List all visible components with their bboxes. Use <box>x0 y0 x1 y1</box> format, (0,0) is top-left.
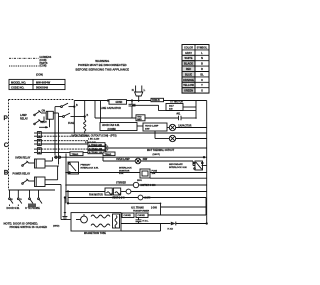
svg-text:FUSE: FUSE <box>68 122 75 125</box>
wire rows <box>41 135 88 137</box>
ground <box>62 212 67 220</box>
relay K2 coil box <box>35 159 46 168</box>
bus row 203 <box>68 202 161 204</box>
fl box <box>113 214 120 228</box>
svg-text:CHOKE: CHOKE <box>138 215 146 217</box>
svg-text:PROBE SWITCH IS CLOSED: PROBE SWITCH IS CLOSED <box>10 225 48 229</box>
junction hv drop <box>160 203 162 205</box>
magnetron filament top <box>91 215 110 218</box>
svg-text:SECONDARY: SECONDARY <box>169 163 183 166</box>
svg-text:MW-8654W: MW-8654W <box>36 80 51 84</box>
motor M3 <box>138 195 143 200</box>
fan motor label <box>89 194 103 197</box>
magnetron filament bottom <box>91 224 110 227</box>
svg-text:PRIMARY: PRIMARY <box>81 164 92 167</box>
wire control board right <box>105 143 106 145</box>
top supply wire <box>74 100 206 102</box>
svg-text:RELAY: RELAY <box>20 118 28 121</box>
power plug <box>135 86 143 103</box>
hv trans label <box>131 207 158 210</box>
svg-text:H.V.C.: H.V.C. <box>143 220 149 222</box>
main dashed border left <box>8 100 10 191</box>
wire vertical x100.5 <box>100 101 102 123</box>
node P <box>4 115 9 122</box>
bus n wire <box>95 117 179 119</box>
oven thermal cutout label <box>71 134 117 137</box>
motor M2 <box>126 189 131 194</box>
bus row 157 <box>54 156 207 158</box>
svg-text:HOOD FAN S.W.: HOOD FAN S.W. <box>102 124 120 127</box>
svg-text:MAGNETRON TUBE: MAGNETRON TUBE <box>84 232 106 235</box>
svg-text:MGT THERMAL CUTOUT: MGT THERMAL CUTOUT <box>147 149 175 152</box>
wire vertical bus x84.7 <box>84 101 86 121</box>
connector pins group 2 <box>37 139 41 145</box>
svg-text:OVEN THERMAL CUTOUT (CON) - (P: OVEN THERMAL CUTOUT (CON) - (PTS) <box>71 134 117 137</box>
capacitor C3 hv <box>136 218 142 224</box>
tt motor box <box>166 104 183 111</box>
magnetron antenna <box>81 216 88 223</box>
svg-text:BRN-B: BRN-B <box>152 100 160 102</box>
wire left drop <box>60 190 62 220</box>
node C <box>4 142 9 149</box>
legend parts line <box>9 65 39 67</box>
relay K2 contact <box>22 161 29 167</box>
relay K1 lamp relay label <box>20 114 28 121</box>
svg-text:DOOR S.W.: DOOR S.W. <box>7 207 20 210</box>
svg-text:(CON): (CON) <box>36 74 43 77</box>
svg-text:B: B <box>4 169 9 176</box>
legend text <box>36 56 52 76</box>
fuse F1 <box>84 120 86 131</box>
motor M1 <box>133 182 138 187</box>
b labels <box>76 105 89 117</box>
hood lamp L2 <box>169 135 175 141</box>
relay K2 oven relay label <box>15 156 31 159</box>
on label <box>41 110 48 124</box>
svg-text:GRND: GRND <box>116 102 123 104</box>
relay K1 coil box <box>46 111 53 119</box>
svg-text:C: C <box>4 142 9 149</box>
relay K3 coil box <box>35 177 46 187</box>
svg-text:BLACK: BLACK <box>184 63 193 66</box>
svg-text:TRANSFORMER: TRANSFORMER <box>133 210 150 213</box>
svg-text:CHOKE: CHOKE <box>124 215 132 217</box>
main dashed border top <box>9 99 75 101</box>
svg-text:2-360: 2-360 <box>151 208 158 210</box>
choke box 2 <box>136 213 148 218</box>
primary interlock <box>65 154 67 204</box>
control board box 1 <box>88 143 105 146</box>
capacitor label <box>178 124 192 127</box>
bus mgt row <box>106 147 207 149</box>
stirrer motor row <box>116 183 126 185</box>
probe block <box>28 204 36 208</box>
relay K3 power relay label <box>13 172 31 175</box>
junction cap row <box>195 117 197 119</box>
magnetron box <box>71 213 121 231</box>
node B <box>4 169 9 176</box>
svg-text:H.V. TRANS: H.V. TRANS <box>131 207 144 210</box>
svg-text:N: N <box>201 57 203 60</box>
svg-text:B: B <box>76 105 78 107</box>
wires tt motor <box>132 101 196 119</box>
svg-text:(CONN): (CONN) <box>108 129 117 131</box>
hv diode row <box>121 223 171 225</box>
svg-text:B: B <box>87 115 89 117</box>
svg-text:STIRRER: STIRRER <box>116 183 126 185</box>
svg-text:HOOD LAMP: HOOD LAMP <box>145 124 159 127</box>
svg-text:MODEL NO.: MODEL NO. <box>11 80 26 84</box>
switch S2 row <box>59 113 86 117</box>
svg-text:POWER RELAY: POWER RELAY <box>13 172 31 175</box>
junction fan row <box>65 191 67 193</box>
hood fan switch box <box>100 123 137 131</box>
wire stub under relay <box>39 126 48 128</box>
choke box 1 <box>122 213 134 218</box>
probe switch S6 <box>38 190 42 204</box>
svg-text:LINE CAPACITOR: LINE CAPACITOR <box>101 107 121 110</box>
svg-text:T: T <box>107 150 109 152</box>
svg-text:TRIAD: TRIAD <box>105 153 112 156</box>
control board box 3 <box>88 150 105 153</box>
color symbol table <box>182 45 209 94</box>
right border <box>206 101 208 224</box>
svg-text:#01: #01 <box>177 114 182 116</box>
svg-text:B TRIAD 120: B TRIAD 120 <box>89 151 103 154</box>
svg-text:OVEN RELAY: OVEN RELAY <box>15 156 31 159</box>
capacitor C1 line capacitor <box>129 101 136 119</box>
svg-text:R: R <box>201 68 203 71</box>
triad box 2 <box>103 152 115 156</box>
grnd label box <box>109 100 127 105</box>
oven lamp row <box>116 158 130 161</box>
magnetron bottom wire <box>121 230 161 232</box>
svg-text:N: N <box>132 88 134 92</box>
svg-text:G: G <box>201 90 203 93</box>
svg-text:P: P <box>4 115 9 122</box>
svg-text:TRIAD: TRIAD <box>72 153 79 156</box>
svg-text:N: N <box>11 199 13 201</box>
svg-text:L TRIAD 240: L TRIAD 240 <box>89 144 103 147</box>
svg-text:O: O <box>201 79 203 82</box>
hood lamp box <box>143 123 167 131</box>
svg-text:FAN MOTOR: FAN MOTOR <box>89 194 103 197</box>
tt motor label <box>170 101 183 104</box>
brn label box <box>151 98 164 101</box>
svg-text:1 BU 2-240: 1 BU 2-240 <box>88 138 100 141</box>
svg-text:INTERLOCK S.W.: INTERLOCK S.W. <box>169 167 187 169</box>
svg-text:ORANGE: ORANGE <box>183 79 194 82</box>
junction monitor row <box>65 172 67 174</box>
junction node 157b <box>102 156 104 158</box>
svg-text:RED: RED <box>186 68 191 71</box>
wire K3 out <box>45 179 58 181</box>
relay K3 contact <box>22 179 29 185</box>
bus row 178 <box>150 177 207 179</box>
legend harness line <box>9 57 39 59</box>
svg-text:COLOR: COLOR <box>184 46 193 49</box>
svg-text:GRAY: GRAY <box>185 52 192 55</box>
hv secondary wire <box>148 214 206 216</box>
junction fuse2 bus <box>84 132 86 134</box>
svg-text:WHITE: WHITE <box>184 57 192 60</box>
main bottom border <box>9 189 56 191</box>
capacitor C2 <box>179 116 182 120</box>
wire vertical bus x74.3 <box>73 101 75 134</box>
diode D1 hvd <box>171 222 176 226</box>
hood lamp L1 <box>169 124 175 130</box>
hv primary wire <box>161 206 206 208</box>
trd label box <box>136 115 145 121</box>
note text <box>4 222 48 229</box>
probe switch S5 <box>29 190 33 204</box>
svg-text:BEFORE SERVICING THIS APPLIANC: BEFORE SERVICING THIS APPLIANCE <box>76 67 130 71</box>
svg-text:CODE NO.: CODE NO. <box>11 85 25 89</box>
svg-text:O TR PROBE: O TR PROBE <box>25 207 40 210</box>
svg-text:MED: MED <box>137 119 142 121</box>
svg-text:BLUE: BLUE <box>185 73 192 76</box>
wires hood lamps <box>137 126 207 139</box>
fan motor boxes <box>105 188 112 195</box>
switch S1 row <box>55 103 75 107</box>
svg-text:3117: 3117 <box>169 106 175 108</box>
door switch S3 <box>9 190 13 206</box>
connector pins group 1 <box>37 132 41 138</box>
junction relay bus <box>58 156 60 158</box>
wire verticals mid <box>54 107 56 156</box>
svg-text:N TRIAD 360: N TRIAD 360 <box>89 147 103 150</box>
svg-text:B: B <box>201 63 203 66</box>
svg-text:S.W.: S.W. <box>119 173 124 175</box>
svg-text:INTERLOCK S.W.: INTERLOCK S.W. <box>81 167 99 169</box>
svg-text:NEUT: NEUT <box>41 122 48 124</box>
svg-text:L: L <box>144 88 146 92</box>
svg-text:BL: BL <box>200 73 204 76</box>
svg-text:H.V.D: H.V.D <box>168 228 174 230</box>
connector pins group 3 <box>37 148 41 154</box>
svg-text:250V: 250V <box>137 180 142 182</box>
wire relay to rows <box>41 112 46 114</box>
junction fuse bus <box>74 132 76 134</box>
oven lamp L3 <box>135 158 141 164</box>
svg-text:ON: ON <box>42 110 46 112</box>
interlock monitor <box>119 168 132 176</box>
control board box 2 <box>88 147 105 150</box>
relay K1 contact a <box>34 110 41 115</box>
relay K1 contact b <box>34 119 41 124</box>
door switch S4 <box>17 190 21 206</box>
model code table <box>9 79 65 89</box>
wire K2 out <box>45 160 52 162</box>
warning text <box>76 59 130 71</box>
wire bus oven thermal <box>41 132 206 134</box>
svg-text:(180°F): (180°F) <box>153 154 161 156</box>
svg-text:(GRD): (GRD) <box>53 226 60 228</box>
svg-text:SYMBOL: SYMBOL <box>197 46 208 49</box>
junction node 157a <box>65 156 67 158</box>
row labels <box>85 138 100 144</box>
svg-text:(CON): (CON) <box>40 65 47 68</box>
svg-text:O: O <box>20 199 22 201</box>
svg-text:CAPACITOR: CAPACITOR <box>178 124 192 127</box>
junction stirrer row <box>65 184 67 186</box>
secondary interlock <box>169 163 187 169</box>
triad box <box>70 152 83 156</box>
svg-text:INTERLOCK: INTERLOCK <box>119 168 132 170</box>
svg-text:GREEN: GREEN <box>184 90 193 93</box>
svg-text:58300349: 58300349 <box>36 85 48 89</box>
svg-text:YELLOW: YELLOW <box>183 84 194 87</box>
